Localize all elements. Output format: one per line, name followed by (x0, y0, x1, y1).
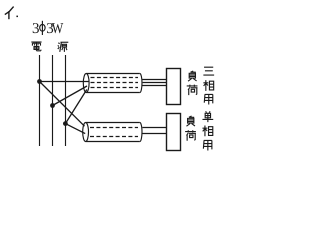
label 3φ3W (source designation) (32, 21, 64, 37)
label イ. (answer choice mark) (5, 7, 18, 20)
wire conduit to single-phase load (bottom) (142, 133, 166, 135)
three-phase conduit (cylinder) (83, 74, 142, 93)
label 負 (load, top) (188, 71, 197, 81)
phase line L2 (vertical) (52, 55, 54, 146)
wire conduit to three-phase load (middle) (143, 82, 167, 84)
label 単 (single) (202, 111, 213, 122)
wire L3 to single-phase conduit (diagonal down) (65, 124, 85, 134)
wire conduit to three-phase load (bottom) (142, 85, 166, 87)
label 用 (use, top) (204, 94, 213, 104)
junction dot on L1 (37, 79, 42, 84)
conductor (dashed) 1 in three-phase conduit (91, 77, 139, 79)
single-phase conduit (cylinder) (83, 123, 142, 142)
conductor (dashed) 2 in three-phase conduit (91, 82, 139, 84)
label 荷 (load, bottom) (185, 130, 196, 141)
wire L1 to single-phase conduit (45 deg diagonal) (40, 82, 85, 127)
wire L1 to three-phase conduit (horizontal) (40, 81, 89, 83)
svg-text:W: W (52, 21, 64, 37)
label 負 (load, bottom) (186, 116, 195, 126)
single-phase load box (167, 114, 181, 151)
phase line L3 (vertical) (65, 55, 67, 146)
phase line L1 (vertical) (39, 55, 41, 146)
label 相 (phase, bottom) (202, 126, 212, 137)
conductor (dashed) 1 in single-phase conduit (90, 127, 138, 129)
three-phase load box (167, 69, 181, 105)
label 荷 (load, top) (187, 85, 198, 96)
svg-text:3: 3 (32, 21, 40, 37)
label 相 (phase, top) (203, 80, 213, 91)
wire L2 to three-phase conduit (diagonal up) (53, 86, 88, 106)
phi symbol of 3φ3W (40, 21, 45, 35)
wire conduit to three-phase load (top) (142, 79, 166, 81)
junction dot on L2 (50, 103, 55, 108)
label 電 (kanji: electric) (31, 42, 41, 51)
conductor (dashed) 3 in three-phase conduit (91, 87, 139, 89)
junction dot on L3 (63, 121, 68, 126)
label 用 (use, bottom) (203, 140, 212, 150)
label 源 (kanji: source) (58, 42, 69, 52)
conductor (dashed) 2 in single-phase conduit (90, 136, 138, 138)
wire L3 to three-phase conduit (steep diagonal up) (65, 90, 86, 124)
wire conduit to single-phase load (top) (142, 127, 166, 129)
label 三 (three) (203, 67, 214, 75)
